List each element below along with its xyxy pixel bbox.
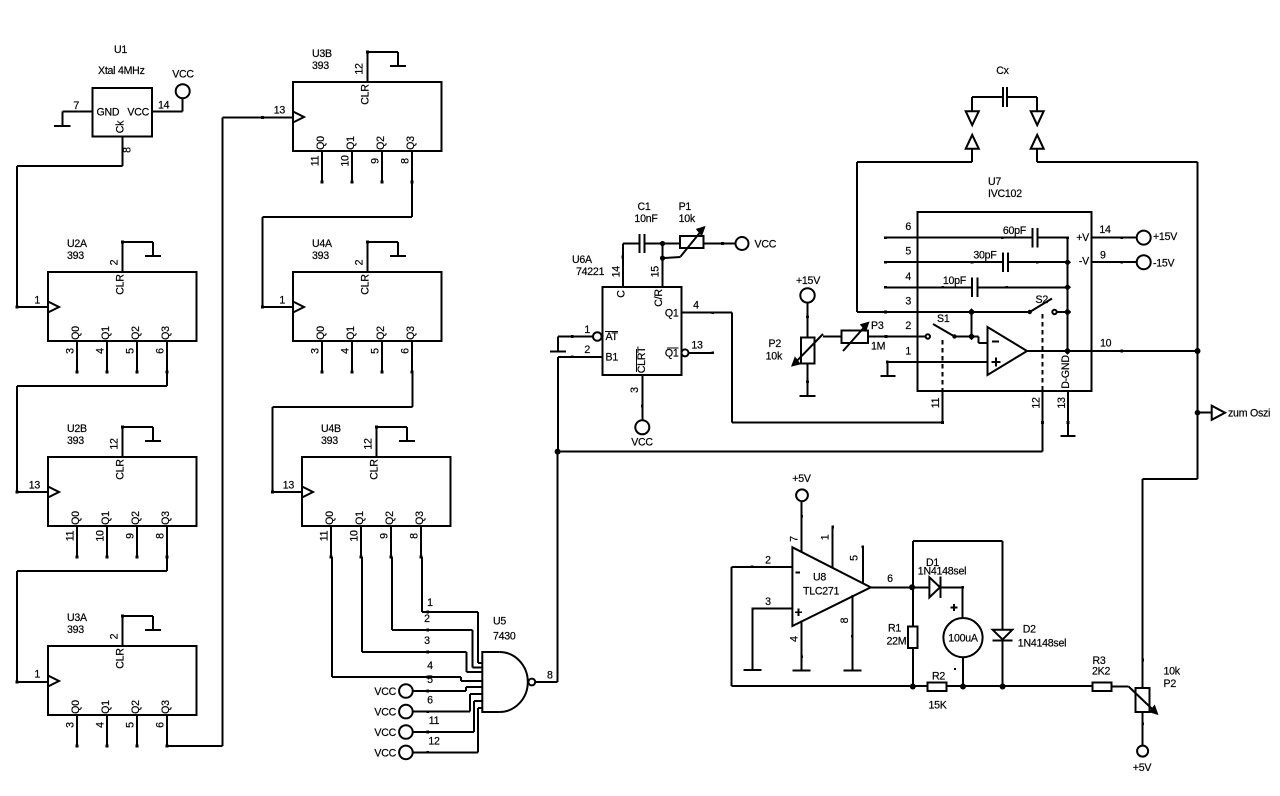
- svg-text:2: 2: [109, 259, 121, 265]
- svg-text:6: 6: [887, 573, 893, 585]
- svg-text:10pF: 10pF: [943, 275, 967, 287]
- svg-text:VCC: VCC: [127, 107, 149, 119]
- svg-text:CLR: CLR: [360, 274, 372, 295]
- svg-text:12: 12: [1031, 397, 1043, 409]
- svg-text:14: 14: [1099, 224, 1111, 236]
- svg-text:5: 5: [370, 348, 382, 354]
- svg-text:Q2: Q2: [130, 326, 142, 340]
- svg-text:Q1: Q1: [100, 511, 112, 525]
- svg-text:393: 393: [67, 250, 84, 262]
- svg-text:3: 3: [424, 635, 430, 647]
- svg-text:VCC: VCC: [755, 239, 777, 251]
- svg-text:-V: -V: [1079, 256, 1090, 268]
- svg-text:7430: 7430: [493, 631, 516, 643]
- svg-text:13: 13: [29, 480, 41, 492]
- svg-text:60pF: 60pF: [1003, 225, 1027, 237]
- svg-text:6: 6: [400, 348, 412, 354]
- svg-text:3: 3: [310, 348, 322, 354]
- svg-text:-15V: -15V: [1153, 258, 1176, 270]
- svg-text:S2: S2: [1036, 294, 1049, 306]
- svg-text:Ck: Ck: [115, 120, 127, 133]
- svg-text:U4A: U4A: [312, 238, 333, 250]
- svg-text:+5V: +5V: [1133, 762, 1153, 774]
- svg-text:10nF: 10nF: [634, 213, 658, 225]
- svg-text:VCC: VCC: [374, 707, 396, 719]
- svg-text:TLC271: TLC271: [803, 586, 840, 598]
- svg-text:13: 13: [1056, 397, 1068, 409]
- svg-text:U6A: U6A: [572, 254, 593, 266]
- svg-text:3: 3: [65, 722, 77, 728]
- svg-text:Q0: Q0: [70, 511, 82, 525]
- svg-text:VCC: VCC: [374, 686, 396, 698]
- svg-text:393: 393: [67, 624, 84, 636]
- svg-text:U8: U8: [813, 572, 826, 584]
- svg-text:1: 1: [34, 669, 40, 681]
- svg-text:8: 8: [122, 147, 134, 153]
- svg-text:D2: D2: [1023, 624, 1036, 636]
- svg-text:3: 3: [905, 296, 911, 308]
- svg-text:4: 4: [427, 660, 433, 672]
- svg-text:Q1: Q1: [354, 511, 366, 525]
- svg-text:8: 8: [400, 158, 412, 164]
- svg-text:Q0: Q0: [315, 326, 327, 340]
- svg-text:2: 2: [424, 613, 430, 625]
- svg-text:+V: +V: [1076, 232, 1090, 244]
- svg-text:C1: C1: [637, 201, 650, 213]
- svg-text:6: 6: [905, 221, 911, 233]
- svg-text:U1: U1: [114, 44, 127, 56]
- svg-text:Q1: Q1: [100, 326, 112, 340]
- svg-text:Q3: Q3: [405, 136, 417, 150]
- svg-text:11: 11: [930, 397, 942, 408]
- svg-text:7: 7: [789, 536, 801, 542]
- svg-text:2K2: 2K2: [1092, 666, 1110, 678]
- svg-text:11: 11: [65, 530, 77, 541]
- svg-text:CLR: CLR: [115, 459, 127, 480]
- svg-text:GND: GND: [97, 107, 120, 119]
- svg-text:CLR: CLR: [115, 274, 127, 295]
- svg-text:Q0: Q0: [315, 136, 327, 150]
- svg-text:Q0: Q0: [70, 700, 82, 714]
- svg-text:9: 9: [379, 533, 391, 539]
- svg-text:U2B: U2B: [67, 423, 87, 435]
- svg-text:12: 12: [109, 438, 121, 450]
- svg-text:1M: 1M: [871, 341, 885, 353]
- svg-text:8: 8: [839, 617, 851, 623]
- svg-text:+15V: +15V: [796, 275, 821, 287]
- svg-text:10: 10: [1100, 338, 1112, 350]
- svg-text:1: 1: [34, 295, 40, 307]
- svg-text:6: 6: [155, 722, 167, 728]
- svg-text:Q2: Q2: [375, 326, 387, 340]
- svg-text:R2: R2: [932, 671, 945, 683]
- svg-text:5: 5: [905, 246, 911, 258]
- svg-text:7: 7: [73, 100, 79, 112]
- svg-text:Xtal 4MHz: Xtal 4MHz: [98, 65, 145, 77]
- svg-text:12: 12: [428, 735, 440, 747]
- svg-text:VCC: VCC: [374, 747, 396, 759]
- svg-text:12: 12: [363, 438, 375, 450]
- svg-text:4: 4: [95, 722, 107, 728]
- svg-text:U4B: U4B: [321, 423, 341, 435]
- svg-text:B1: B1: [606, 352, 619, 364]
- svg-text:P3: P3: [871, 320, 884, 332]
- svg-text:11: 11: [319, 530, 331, 541]
- svg-text:4: 4: [340, 348, 352, 354]
- svg-text:CLR: CLR: [115, 648, 127, 669]
- svg-text:Q0: Q0: [70, 326, 82, 340]
- svg-text:10k: 10k: [1164, 666, 1181, 678]
- svg-text:8: 8: [409, 533, 421, 539]
- svg-text:10: 10: [95, 530, 107, 542]
- svg-text:Q3: Q3: [414, 511, 426, 525]
- svg-text:VCC: VCC: [374, 727, 396, 739]
- svg-text:6: 6: [155, 348, 167, 354]
- svg-text:9: 9: [125, 533, 137, 539]
- svg-text:U7: U7: [988, 176, 1001, 188]
- svg-text:11: 11: [310, 155, 322, 166]
- svg-text:10k: 10k: [679, 213, 696, 225]
- svg-text:Q3: Q3: [160, 700, 172, 714]
- svg-text:13: 13: [691, 340, 703, 352]
- svg-text:10: 10: [349, 530, 361, 542]
- svg-text:4: 4: [905, 271, 911, 283]
- svg-text:Q3: Q3: [405, 326, 417, 340]
- svg-text:74221: 74221: [576, 266, 605, 278]
- svg-text:1: 1: [584, 324, 590, 336]
- svg-text:CLR: CLR: [369, 459, 381, 480]
- svg-text:P2: P2: [769, 338, 782, 350]
- svg-text:Q0: Q0: [324, 511, 336, 525]
- svg-text:Q2: Q2: [130, 700, 142, 714]
- svg-text:5: 5: [125, 722, 137, 728]
- svg-text:15: 15: [649, 266, 661, 278]
- svg-text:Q2: Q2: [375, 136, 387, 150]
- svg-text:+5V: +5V: [792, 473, 812, 485]
- svg-text:8: 8: [155, 533, 167, 539]
- svg-text:13: 13: [274, 105, 286, 117]
- svg-text:AT: AT: [606, 331, 619, 343]
- svg-text:3: 3: [765, 596, 771, 608]
- svg-text:1: 1: [820, 534, 832, 540]
- svg-text:Q3: Q3: [160, 326, 172, 340]
- svg-text:5: 5: [849, 555, 861, 561]
- svg-text:13: 13: [283, 480, 295, 492]
- svg-text:2: 2: [765, 555, 771, 567]
- svg-text:9: 9: [370, 158, 382, 164]
- svg-text:6: 6: [427, 695, 433, 707]
- svg-text:U3A: U3A: [67, 612, 88, 624]
- svg-text:3: 3: [65, 348, 77, 354]
- svg-text:U2A: U2A: [67, 238, 88, 250]
- svg-text:393: 393: [312, 250, 329, 262]
- svg-text:1: 1: [905, 346, 911, 358]
- svg-text:Q2: Q2: [130, 511, 142, 525]
- svg-text:11: 11: [429, 715, 440, 727]
- svg-text:IVC102: IVC102: [988, 188, 1022, 200]
- svg-text:100uA: 100uA: [948, 633, 979, 645]
- svg-text:S1: S1: [937, 313, 950, 325]
- svg-text:1: 1: [427, 597, 433, 609]
- svg-text:zum Oszi: zum Oszi: [1228, 408, 1270, 420]
- svg-text:U3B: U3B: [312, 48, 332, 60]
- svg-text:U5: U5: [493, 616, 506, 628]
- svg-text:Q1: Q1: [345, 326, 357, 340]
- svg-text:1: 1: [279, 295, 285, 307]
- svg-text:Q2: Q2: [384, 511, 396, 525]
- svg-text:4: 4: [693, 300, 699, 312]
- svg-text:393: 393: [312, 60, 329, 72]
- svg-text:D-GND: D-GND: [1060, 355, 1072, 389]
- svg-text:2: 2: [584, 344, 590, 356]
- svg-text:1N4148sel: 1N4148sel: [918, 566, 966, 578]
- svg-text:C: C: [615, 290, 627, 298]
- svg-text:4: 4: [95, 348, 107, 354]
- svg-text:5: 5: [427, 674, 433, 686]
- svg-text:2: 2: [109, 633, 121, 639]
- svg-text:+15V: +15V: [1153, 231, 1178, 243]
- svg-text:5: 5: [125, 348, 137, 354]
- svg-text:2: 2: [905, 320, 911, 332]
- svg-text:Q1: Q1: [665, 308, 679, 320]
- svg-text:14: 14: [610, 266, 622, 278]
- svg-text:9: 9: [1100, 250, 1106, 262]
- svg-text:2: 2: [354, 259, 366, 265]
- svg-text:Q3: Q3: [160, 511, 172, 525]
- svg-text:Q1: Q1: [345, 136, 357, 150]
- svg-text:P1: P1: [679, 201, 692, 213]
- svg-text:30pF: 30pF: [973, 250, 997, 262]
- svg-text:15K: 15K: [928, 700, 946, 712]
- svg-text:Q1: Q1: [665, 348, 679, 360]
- svg-text:Cx: Cx: [996, 65, 1009, 77]
- svg-text:VCC: VCC: [631, 437, 653, 449]
- svg-text:12: 12: [354, 63, 366, 75]
- svg-text:4: 4: [789, 636, 801, 642]
- svg-text:14: 14: [158, 100, 170, 112]
- svg-text:R1: R1: [888, 623, 901, 635]
- svg-text:8: 8: [547, 670, 553, 682]
- svg-text:VCC: VCC: [172, 69, 194, 81]
- svg-text:393: 393: [67, 435, 84, 447]
- svg-text:CLR: CLR: [360, 84, 372, 105]
- svg-text:393: 393: [321, 435, 338, 447]
- svg-text:3: 3: [629, 387, 641, 393]
- svg-text:10: 10: [340, 155, 352, 167]
- svg-text:10k: 10k: [766, 351, 783, 363]
- svg-text:22M: 22M: [887, 636, 907, 648]
- svg-text:P2: P2: [1164, 678, 1177, 690]
- svg-text:Q1: Q1: [100, 700, 112, 714]
- svg-text:1N4148sel: 1N4148sel: [1018, 637, 1066, 649]
- svg-text:CLRT: CLRT: [636, 346, 648, 373]
- svg-text:C/R: C/R: [653, 289, 665, 307]
